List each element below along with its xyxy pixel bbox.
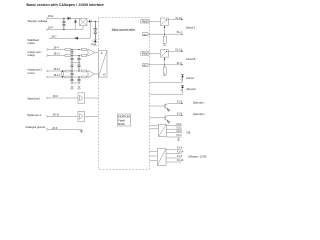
svg-text:green: green bbox=[91, 43, 96, 46]
svg-text:RAM: RAM bbox=[118, 122, 124, 126]
resistor R1 bbox=[65, 49, 71, 51]
CAN interface block bbox=[157, 149, 166, 166]
schmitt buffer U5 bbox=[78, 111, 85, 122]
svg-text:X1-13: X1-13 bbox=[177, 159, 184, 162]
feedback arrow into driver A bbox=[164, 26, 166, 35]
wire USB out 4 bbox=[166, 136, 182, 138]
svg-text:28-4: 28-4 bbox=[54, 46, 60, 49]
svg-text:USB: USB bbox=[186, 131, 190, 135]
svg-text:X1-14: X1-14 bbox=[177, 150, 184, 153]
wire LED red bbox=[149, 82, 182, 84]
junction dot supply - bbox=[63, 29, 64, 30]
svg-text:X1-5: X1-5 bbox=[177, 62, 183, 65]
USB interface block bbox=[159, 124, 167, 136]
junction dots analogue 2 bbox=[62, 70, 63, 71]
capacitor C1 (two stacked caps across supply) bbox=[62, 18, 65, 29]
schmitt buffer U4 bbox=[78, 93, 85, 104]
wire 5V output bbox=[87, 20, 99, 22]
capacitor C2 on 5V rail bbox=[94, 21, 97, 32]
svg-text:Solenoid B: Solenoid B bbox=[186, 57, 195, 61]
input arrow analogue 1a bbox=[46, 49, 48, 51]
svg-text:X1-10: X1-10 bbox=[175, 17, 182, 20]
sense resistor A bbox=[163, 34, 166, 45]
input arrow analogue 2a bbox=[46, 70, 48, 72]
arrow output 2 end bbox=[181, 115, 183, 116]
junction node 5V bbox=[95, 21, 96, 22]
wire analogue 2b bbox=[49, 76, 66, 78]
wire USB in 1 bbox=[149, 125, 158, 127]
AD port A box bbox=[143, 33, 149, 37]
terminal bar under LED green bbox=[94, 44, 97, 46]
svg-text:X1-8: X1-8 bbox=[177, 101, 183, 104]
op-amp U2 bbox=[88, 49, 95, 56]
sense resistor B bbox=[163, 65, 166, 76]
svg-text:Microcontroller: Microcontroller bbox=[112, 28, 137, 32]
svg-text:Digital input 1: Digital input 1 bbox=[28, 97, 41, 101]
wire PWM A to driver bbox=[149, 21, 161, 23]
capacitor C10 down to lower rail bbox=[70, 77, 73, 83]
capacitor C4 between lines bbox=[70, 50, 73, 56]
svg-text:LED yellow: LED yellow bbox=[186, 87, 196, 91]
svg-text:Basic version with CANopen / J: Basic version with CANopen / J1939 inter… bbox=[26, 3, 104, 7]
svg-text:PWM: PWM bbox=[142, 54, 148, 56]
terminal bar B bbox=[163, 75, 166, 77]
wire digital 1 to mcu bbox=[85, 97, 99, 99]
svg-text:D: D bbox=[103, 73, 105, 77]
LED red symbol bbox=[181, 75, 184, 83]
wire collector Q1 output bbox=[168, 103, 181, 105]
DC/DC converter U1 bbox=[80, 19, 88, 26]
svg-text:X1-9: X1-9 bbox=[177, 112, 183, 115]
diode D1 series on supply bbox=[68, 17, 71, 20]
ground Q1 bbox=[167, 109, 170, 111]
solenoid driver A bbox=[160, 18, 168, 26]
clamp diode D5 bbox=[78, 83, 81, 89]
wire CAN in 2 bbox=[149, 155, 157, 157]
wire LED yellow bbox=[149, 93, 182, 95]
transistor Q2 bbox=[165, 115, 168, 121]
wire CAN in 3 bbox=[149, 160, 157, 162]
capacitor C9 between lines bbox=[70, 71, 73, 77]
svg-text:AD: AD bbox=[143, 64, 146, 67]
input arrow analogue ground bbox=[46, 128, 48, 130]
solenoid driver B bbox=[160, 50, 168, 58]
svg-text:PWM: PWM bbox=[142, 21, 148, 23]
svg-text:voltage: voltage bbox=[28, 53, 35, 57]
junction node A bbox=[164, 34, 165, 35]
svg-text:Digital input 2: Digital input 2 bbox=[27, 113, 41, 117]
arrow sense A end bbox=[181, 34, 183, 35]
input arrow supply - bbox=[46, 29, 48, 31]
resistor R5 bbox=[65, 70, 71, 72]
LED yellow symbol bbox=[181, 85, 184, 94]
wire driver A output bbox=[168, 19, 182, 21]
capacitor C5 to analogue rail bbox=[70, 56, 73, 63]
wire CAN out 1 bbox=[166, 148, 181, 150]
resistor R2 bbox=[82, 49, 87, 51]
microcontroller dashed box bbox=[99, 18, 150, 170]
analogue rail upper bbox=[70, 62, 80, 64]
resistor R4 bbox=[82, 55, 87, 57]
shunt resistor R9 bbox=[61, 71, 63, 77]
wire supply + rail bbox=[48, 17, 67, 19]
svg-text:Digital output 2: Digital output 2 bbox=[193, 112, 205, 116]
svg-text:X3-3: X3-3 bbox=[176, 130, 182, 133]
wire current sense B bbox=[148, 64, 181, 66]
diode D2 reverse protection (vertical) bbox=[74, 18, 77, 29]
input arrow digital 2 bbox=[46, 115, 48, 117]
wire analogue 1a mid bbox=[71, 49, 82, 51]
wire analogue 1b bbox=[49, 55, 66, 57]
svg-text:Supply voltage: Supply voltage bbox=[28, 19, 48, 23]
arrow stabilised output direction bbox=[74, 37, 78, 40]
svg-text:Solenoid A: Solenoid A bbox=[186, 26, 195, 30]
svg-text:X3-4: X3-4 bbox=[176, 134, 182, 137]
svg-text:AD: AD bbox=[143, 33, 146, 36]
svg-text:Flash: Flash bbox=[118, 118, 125, 122]
wire base Q1 bbox=[149, 105, 165, 107]
ground Q2 bbox=[167, 121, 170, 123]
svg-text:EEPROM: EEPROM bbox=[118, 115, 130, 119]
capacitor C6 to analogue rail bbox=[77, 56, 80, 63]
capacitor C11 down to lower rail bbox=[77, 77, 80, 83]
svg-text:LED red: LED red bbox=[186, 76, 194, 80]
wire analogue 2a bbox=[49, 70, 66, 72]
svg-text:28-9: 28-9 bbox=[53, 95, 59, 98]
wire collector Q2 output bbox=[168, 114, 181, 116]
terminal bar A bbox=[163, 44, 166, 46]
svg-text:X1-3: X1-3 bbox=[177, 155, 183, 158]
wire CAN in 1 bbox=[149, 150, 157, 152]
wire analogue ground bbox=[49, 128, 82, 130]
PWM port B box bbox=[141, 52, 149, 56]
wire PWM B to driver bbox=[149, 53, 161, 55]
arrow driver A output bbox=[181, 19, 183, 20]
wire USB in 2 bbox=[149, 128, 158, 130]
memory block EEPROM/Flash/RAM bbox=[118, 114, 131, 126]
arrow sense B end bbox=[181, 64, 183, 65]
ground USB shield bbox=[177, 137, 180, 141]
capacitor C8 up to analogue rail bbox=[77, 63, 80, 71]
clamp diode D4 bbox=[71, 83, 74, 89]
input arrow digital 1 bbox=[46, 97, 48, 99]
op-amp U3 bbox=[88, 70, 95, 77]
analogue rail lower bbox=[70, 82, 80, 84]
wire USB out 1 bbox=[166, 125, 182, 127]
PWM port A box bbox=[141, 20, 149, 24]
svg-text:28-10: 28-10 bbox=[53, 113, 60, 116]
svg-text:28-E: 28-E bbox=[48, 15, 54, 18]
wire op-amp2 to ADC bbox=[95, 73, 99, 75]
AD port B box bbox=[143, 63, 149, 67]
wire base Q2 bbox=[149, 117, 165, 119]
junction dot supply + bbox=[63, 18, 64, 19]
wire CAN out 2 bbox=[166, 152, 181, 154]
wire CAN out 4 bbox=[166, 161, 181, 163]
wire to op-amp 1b bbox=[87, 54, 89, 55]
wire supply - rail bbox=[48, 26, 83, 30]
input arrow analogue 2b bbox=[46, 76, 48, 78]
ground symbol bbox=[80, 129, 84, 132]
svg-text:28-F: 28-F bbox=[48, 26, 54, 29]
svg-text:A: A bbox=[101, 51, 103, 55]
wire current sense A bbox=[148, 33, 181, 35]
svg-text:X1-2: X1-2 bbox=[177, 31, 183, 34]
svg-text:output: output bbox=[28, 41, 35, 45]
input arrow analogue 1b bbox=[46, 55, 48, 57]
svg-text:Analogue ground: Analogue ground bbox=[26, 125, 46, 129]
capacitor C7 up to analogue rail bbox=[70, 63, 73, 71]
wire to op-amp 2a bbox=[87, 71, 89, 72]
input arrow supply + bbox=[46, 17, 48, 19]
junction node B bbox=[164, 64, 165, 65]
resistor R6 bbox=[82, 70, 87, 72]
wire analogue 2b mid bbox=[71, 76, 82, 78]
wire stabilised output bbox=[49, 21, 91, 38]
svg-text:current: current bbox=[28, 71, 35, 75]
wire USB out 3 bbox=[166, 132, 182, 134]
wire to op-amp 2b bbox=[87, 76, 89, 77]
wire analogue 1b mid bbox=[71, 55, 82, 57]
wire to op-amp 1a bbox=[87, 50, 89, 51]
svg-text:X1-4: X1-4 bbox=[177, 146, 183, 149]
resistor R8 bbox=[82, 76, 87, 78]
resistor R7 bbox=[65, 76, 71, 78]
resistor R3 bbox=[65, 55, 71, 57]
svg-text:Digital output 1: Digital output 1 bbox=[193, 100, 205, 104]
capacitor C3 on 5V rail bbox=[94, 32, 97, 39]
feedback arrow into driver B bbox=[164, 57, 166, 65]
svg-text:X1-12: X1-12 bbox=[175, 49, 182, 52]
wire op-amp1 to ADC bbox=[95, 51, 99, 53]
svg-text:28-11: 28-11 bbox=[54, 52, 61, 55]
wire digital input 2 bbox=[49, 115, 79, 117]
svg-text:CANopen / J1939: CANopen / J1939 bbox=[188, 154, 207, 158]
svg-text:28-13: 28-13 bbox=[54, 74, 61, 77]
wire driver B output bbox=[168, 50, 182, 52]
diode D3 on 5V output bbox=[89, 20, 91, 23]
wire CAN out 3 bbox=[166, 157, 181, 159]
transistor Q1 bbox=[165, 104, 168, 110]
wire USB out 2 bbox=[166, 128, 182, 130]
junction dots analogue 1 bbox=[71, 49, 72, 50]
arrow output 1 end bbox=[181, 103, 183, 104]
arrow driver B output bbox=[181, 51, 183, 52]
wire digital input 1 bbox=[49, 97, 79, 99]
LED green bbox=[92, 39, 97, 45]
wire analogue 2a mid bbox=[71, 70, 82, 72]
wire analogue 1a bbox=[49, 49, 66, 51]
wire digital 2 to mcu bbox=[85, 115, 99, 117]
svg-text:28-12: 28-12 bbox=[54, 68, 61, 71]
ADC converter block bbox=[98, 50, 107, 77]
